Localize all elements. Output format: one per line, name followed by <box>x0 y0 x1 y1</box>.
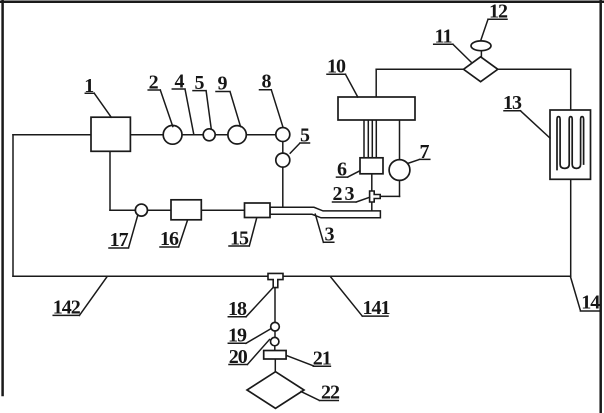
wire circle5b down to pipe3 <box>282 167 284 207</box>
label 3 <box>315 214 334 242</box>
label 17 <box>109 216 138 248</box>
label 9 <box>216 92 241 127</box>
svg-text:4: 4 <box>175 71 185 93</box>
wire right vertical lower 14 <box>570 179 572 276</box>
label 4 <box>172 89 193 134</box>
label 21 <box>287 356 330 367</box>
box 10 <box>338 97 415 120</box>
svg-text:141: 141 <box>363 297 390 319</box>
svg-text:5: 5 <box>300 125 310 147</box>
circle 17 <box>135 204 147 216</box>
label 12 <box>481 19 507 40</box>
pipe 3 <box>270 207 380 218</box>
wire box10 to circle7 <box>399 120 401 160</box>
wire diamond to right corner <box>498 68 571 70</box>
wire box6 to valve23 <box>371 174 373 191</box>
circle 5a <box>203 129 215 141</box>
label 142 <box>53 277 106 315</box>
label 13 <box>504 111 550 138</box>
wire circle9 to circle8 <box>246 134 276 136</box>
label 11 <box>434 44 471 62</box>
ellipse 12 <box>471 41 491 51</box>
circle 20 <box>271 337 279 345</box>
label 7 <box>408 159 430 163</box>
svg-text:8: 8 <box>262 71 272 93</box>
svg-text:10: 10 <box>327 56 346 78</box>
circle 5b <box>276 153 290 167</box>
svg-text:11: 11 <box>435 26 452 48</box>
svg-text:142: 142 <box>53 296 81 318</box>
wire circle19 to circle20 <box>274 331 276 337</box>
svg-text:2: 2 <box>149 72 159 94</box>
svg-text:12: 12 <box>489 1 508 23</box>
wire to valve23 stem <box>380 195 399 197</box>
svg-text:3: 3 <box>325 224 335 246</box>
box 15 <box>245 203 271 218</box>
wire box16 to box15 <box>201 209 244 211</box>
wire circle7 down <box>399 180 401 196</box>
label 5b <box>290 143 309 153</box>
svg-text:6: 6 <box>337 158 347 180</box>
wire corner to circle17 <box>110 209 135 211</box>
svg-text:13: 13 <box>503 92 522 114</box>
label 6 <box>337 171 360 177</box>
circle 2 <box>163 125 182 144</box>
label 20 <box>229 340 270 365</box>
valve 23 <box>370 191 381 202</box>
wire diamond to drop point <box>376 68 465 70</box>
wire box21 to diamond22 <box>274 359 276 372</box>
label 10 <box>327 74 358 97</box>
label 14 <box>571 278 599 312</box>
svg-text:7: 7 <box>420 141 430 163</box>
wire long bottom line 141 <box>13 275 571 277</box>
svg-text:20: 20 <box>229 346 248 368</box>
circle 8 <box>276 128 290 142</box>
svg-text:18: 18 <box>228 298 247 320</box>
wire circle5a to circle9 <box>214 134 228 136</box>
label 19 <box>228 329 270 343</box>
wire valve18 down to circle19 <box>274 288 276 323</box>
wire box1 to left loop <box>13 134 91 136</box>
svg-text:9: 9 <box>218 73 228 95</box>
svg-text:19: 19 <box>228 325 247 347</box>
label 1 <box>85 93 111 117</box>
label 15 <box>229 218 257 246</box>
pins box10 to box6 <box>364 120 376 158</box>
box 1 <box>91 117 130 151</box>
wire left vertical 142 side <box>12 135 14 276</box>
box 13 <box>550 110 591 179</box>
wire circle2 to circle5a <box>181 134 204 136</box>
valve 18 <box>268 273 283 287</box>
svg-text:23: 23 <box>333 183 357 205</box>
label 23 <box>333 197 370 202</box>
svg-text:5: 5 <box>195 72 205 94</box>
svg-text:1: 1 <box>84 75 94 97</box>
box 6 <box>360 158 383 174</box>
svg-text:14: 14 <box>581 291 600 313</box>
svg-text:15: 15 <box>230 227 249 249</box>
wire circle20 to box21 <box>274 346 276 351</box>
wire ellipse 12 stem <box>480 51 482 57</box>
wire box1 to circle2 <box>130 134 164 136</box>
label 16 <box>160 220 188 247</box>
svg-text:17: 17 <box>110 229 129 251</box>
box 16 <box>171 200 201 220</box>
svg-text:16: 16 <box>160 228 179 250</box>
circle 19 <box>271 322 280 331</box>
circle 9 <box>228 126 246 144</box>
wire right vertical upper <box>570 69 572 110</box>
label 141 <box>331 277 388 316</box>
svg-text:21: 21 <box>313 348 331 370</box>
label 8 <box>260 90 284 127</box>
svg-text:22: 22 <box>321 381 340 403</box>
label 2 <box>148 90 173 127</box>
wire circle17 to box16 <box>148 209 172 211</box>
label 18 <box>228 288 272 317</box>
circle 7 <box>389 160 410 181</box>
label 5a <box>193 91 211 130</box>
diamond 11 <box>464 57 498 82</box>
diamond 22 <box>247 372 304 409</box>
coil of box 13 <box>557 117 584 170</box>
wire valve23 to pipe3 <box>371 202 373 211</box>
wire box1 down <box>109 152 111 211</box>
box 21 <box>264 351 286 360</box>
wire circle8 to circle5b <box>282 142 284 154</box>
label 22 <box>301 392 338 401</box>
wire drop to box 10 <box>375 69 377 97</box>
